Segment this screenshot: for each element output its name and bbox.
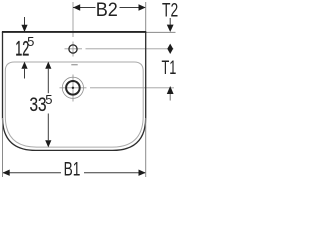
B2 left arrow <box>73 4 80 10</box>
centerline dash below tap hole <box>71 64 77 65</box>
B1 right extension line <box>145 118 147 177</box>
dimension B2: line y=7.5 from x=73 to x=146 <box>73 7 146 9</box>
B2 right arrow <box>139 4 146 10</box>
dimension 33.5: stem and down arrow at inner bowl bottom <box>47 114 49 141</box>
svg-text:B1: B1 <box>64 158 81 180</box>
dimension 12.5: down arrow above top edge at x=24.5 <box>24 17 26 25</box>
B1 left extension line <box>2 118 4 177</box>
outer basin top edge (thicker) <box>2 31 146 33</box>
wire: drain centerline extension right (y=87.8) <box>60 87 87 89</box>
drain outer circle <box>62 77 83 98</box>
outer basin outline sides+bottom <box>3 32 146 150</box>
svg-text:33: 33 <box>30 93 47 115</box>
B2 right extension line x=146 <box>145 2 147 31</box>
svg-text:5: 5 <box>27 34 34 49</box>
tap hole circle <box>69 45 77 53</box>
drain crosshair vertical <box>72 75 74 102</box>
drain ring <box>66 81 80 95</box>
B1 left arrow <box>3 170 10 176</box>
inner bowl outline (light) <box>5 62 143 147</box>
centerline vertical through tap hole x=73 <box>72 2 74 57</box>
svg-text:B2: B2 <box>96 0 118 20</box>
wire: top edge extension line to right (y=32.4) <box>146 31 176 33</box>
dimension T2 upper arrow (points down at top edge) <box>169 18 171 25</box>
drain center dot <box>72 87 74 89</box>
svg-text:T2: T2 <box>162 0 178 21</box>
dimension 33.5: up arrow at inner bowl top, x=48.3 <box>45 62 51 69</box>
svg-text:5: 5 <box>45 92 52 107</box>
svg-text:T1: T1 <box>162 58 177 79</box>
dimension 12.5: up arrow below inner bowl edge at x=24.5 <box>21 62 27 69</box>
dimension T1 lower arrow (points up at drain centerline) <box>167 86 174 94</box>
dimension T2/T1 shared diamond at tap centerline <box>167 44 173 54</box>
dimension B1: line y=169.4 <box>3 172 146 174</box>
B1 right arrow <box>139 170 146 176</box>
wire: tap hole centerline extension right (y=48.8) <box>65 48 83 50</box>
